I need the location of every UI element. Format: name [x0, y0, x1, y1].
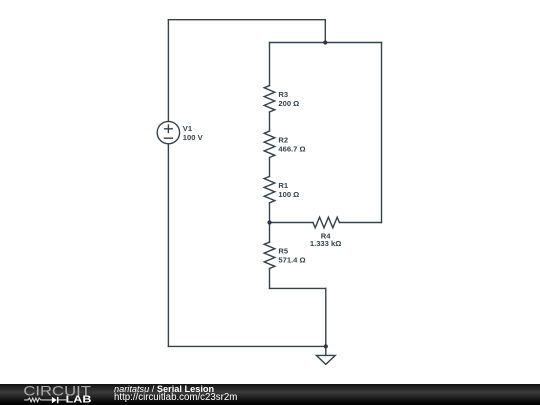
- ground stub: [325, 346, 327, 355]
- V1 minus sign: [164, 137, 172, 139]
- wire right vertical (top rail to node A): [324, 20, 326, 43]
- wire R1 to node B to R5: [269, 203, 271, 242]
- resistor R3: [264, 86, 275, 112]
- svg-text:R3: R3: [278, 90, 288, 99]
- resistor R4: [313, 217, 339, 228]
- wire bottom jog horizontal: [270, 287, 326, 289]
- wire bottom horizontal: [168, 345, 325, 347]
- resistor R5: [264, 242, 275, 268]
- svg-text:R2: R2: [278, 136, 288, 145]
- ground: [316, 355, 335, 364]
- logo diode: [52, 397, 57, 403]
- voltage source V1: [157, 121, 179, 143]
- wire top horizontal: [168, 19, 325, 21]
- svg-text:LAB: LAB: [66, 395, 92, 405]
- logo resistor squiggle: [24, 398, 52, 402]
- wire right vertical (R4 up to node A rail): [381, 43, 383, 223]
- svg-text:1.333 kΩ: 1.333 kΩ: [310, 239, 341, 248]
- wire left vertical upper (top rail to V1 top): [167, 20, 169, 122]
- resistor R1: [264, 176, 275, 202]
- wire R3 to R2: [269, 112, 271, 131]
- node B junction dot: [267, 220, 271, 224]
- footer bar: [0, 384, 540, 405]
- ground node junction dot: [324, 344, 328, 348]
- svg-text:R5: R5: [278, 247, 288, 256]
- svg-text:R1: R1: [278, 181, 288, 190]
- V1 plus sign: [165, 125, 173, 133]
- svg-text:100 V: 100 V: [183, 133, 204, 142]
- wire node A horizontal (y=42.5): [270, 42, 382, 44]
- credit text: [113, 383, 115, 385]
- node A junction dot: [323, 40, 327, 44]
- wire left vertical lower (V1 bottom to bottom rail): [167, 144, 169, 347]
- wire R5 bottom: [269, 269, 271, 289]
- wire R2 to R1: [269, 158, 271, 177]
- svg-text:200 Ω: 200 Ω: [278, 99, 299, 108]
- svg-text:466.7 Ω: 466.7 Ω: [278, 145, 305, 154]
- svg-text:V1: V1: [183, 124, 193, 133]
- wire from node A down to R3: [269, 43, 271, 86]
- CircuitLab logo: [18, 384, 98, 405]
- wire R4 to right vertical: [339, 222, 381, 224]
- wire bottom jog vertical to ground node: [325, 288, 327, 346]
- resistor R2: [264, 131, 275, 157]
- wire node B to R4: [270, 222, 314, 224]
- svg-text:571.4 Ω: 571.4 Ω: [278, 256, 305, 265]
- svg-text:100 Ω: 100 Ω: [278, 190, 299, 199]
